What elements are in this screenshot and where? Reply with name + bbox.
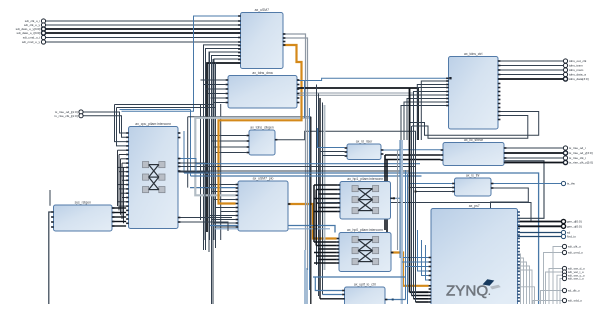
wire tick feed 4 [407,99,446,141]
svg-text:tx_rise_od_i: tx_rise_od_i [569,146,586,150]
svg-text:tx_rise_clk_y[3:0]: tx_rise_clk_y[3:0] [569,161,593,165]
wire uplf in blue 290 [315,277,342,291]
port right port tdns_data[3:0] [563,77,588,81]
wire V4 x411 [411,126,413,296]
wire tick feed 0 [421,81,446,140]
wire tick feed 88 thin [418,87,446,89]
ax_cpu_interconnect right pins [178,132,181,223]
ax_uplf_io_ctrl left pins [342,290,345,300]
wire hp1 in 2 [318,193,337,195]
ax_tx_rise_shear left pins [441,149,444,161]
wire blue vertical V1d [187,117,189,188]
wire dma in 2 [206,88,226,90]
wire riser in 2 [320,151,345,153]
block ax_tdns_clkgen [249,125,275,155]
wire orange net pio to hp0 [288,204,337,239]
wire blue vertical V1c [183,131,185,173]
wire ps7 right nest 3 [518,266,530,304]
ax_id_riser right pins [381,149,384,155]
svg-text:sdi_dato_o_i[3:0]: sdi_dato_o_i[3:0] [17,31,41,35]
svg-text:fixd_io: fixd_io [567,235,576,239]
wire dma in 5 [213,102,226,104]
wire V3 x305 blue low [304,250,306,304]
ax_hp1_interconnect right pins [390,198,393,200]
svg-text:tdns_out_clk: tdns_out_clk [569,59,587,63]
wire rstgen right 3 [112,221,126,223]
wire V4 x405 blue [405,170,407,300]
wire sdi_clk_o wire [553,247,562,305]
wire dark h116 [188,116,311,118]
wire dma to tick blue [297,78,446,80]
block ax_uSD_pio [238,176,288,231]
wire shear bus in 1 [385,154,441,156]
wire bundle ps7 gen buses [518,222,562,227]
port right port tdns_mam [563,68,583,72]
wire V3 x310 black low [310,117,312,304]
svg-text:sdi_clk_o: sdi_clk_o [568,245,581,249]
wire hp1 in 5 [318,207,337,209]
port right port tx_rise_od_i [563,146,585,150]
wire uplf blue h277 [313,276,406,278]
wire sdi_vdd_o wire [533,301,562,305]
wire tick loop 1 [410,112,539,136]
wire hp1 in 4 [316,202,337,204]
wire bus V2 to ax_uSM7 [207,63,241,232]
sys_rstgen left pins [51,211,54,228]
ax_tdns_ctrl left pins [446,78,449,107]
wire V3 x305 blue short [304,80,306,118]
wire tick feed 1 [417,85,446,141]
port right port tx_rise_clk_y[3:0] [563,160,593,164]
port left port tx_rise_od_j[1:0] [55,110,83,114]
port right port sdi_vdd_o [562,298,582,302]
wire hp1 right blue [391,198,429,257]
wire dma in 4 [211,97,226,99]
wire pair h1 cpu_ic [115,104,214,106]
wire sdi_var_l_o wire [560,279,562,305]
wire V4 feed ps7 262 [402,261,429,263]
ax_cpu_interconnect left pins [126,132,129,224]
ax_hp0_interconnect right pins [391,252,394,254]
port right port fixd_io [561,234,576,238]
wire orange net uSM7 to pio [219,45,302,204]
svg-text:tx_rise_clk_j[1:0]: tx_rise_clk_j[1:0] [55,114,78,118]
wire clkgen in 4 [216,152,247,154]
block ax_id_riser [347,139,381,159]
block ax_tdns_dma [228,71,297,108]
wire uplf in blue 294 [323,294,343,296]
svg-text:gen_d[0:0]: gen_d[0:0] [567,220,582,224]
port left port sdi_dato_o_y[3:0] [16,27,46,31]
svg-text:sdi_var_l_o: sdi_var_l_o [568,277,584,281]
wire black vertical x200 [200,105,202,221]
ax_hp1_interconnect left pins [338,184,341,212]
wire ps7 right nest 2 [518,262,527,304]
ax_uSM7 right pins [283,33,286,46]
ax_is_thr right pins [491,183,494,189]
wire cpu_ic out 172 [178,172,209,252]
wire V4 x421 blue [422,240,429,276]
wire V2 riser 2 to ax_uSM7 [209,52,241,250]
wire blue feed cpu interconnect [120,109,191,111]
wire rstgen right 0 [112,207,126,209]
svg-text:ZYNQ: ZYNQ [446,282,488,299]
wire V4 x402 wide [401,140,403,304]
wire clkgen out 1 [275,131,416,140]
ax_tx_rise_shear right pins [504,147,507,163]
port right port tx_rise_clk_i [563,156,586,160]
wire bundle left port buses to ax_uSM7 [46,29,241,33]
ax_tdns_dma right pins [297,79,300,103]
wire V3 x324 wide [324,105,326,270]
wire V4 feed ps7 292 [410,291,429,293]
wire pio in 1 [212,191,236,193]
wire blue long 173 [184,173,539,304]
wire pio in 2 [213,199,236,201]
wire shear v385a [384,155,386,230]
svg-text:is_thv: is_thv [567,182,576,186]
port right port is_thv [561,181,575,185]
wire cpu_ic out 158 [178,159,196,174]
ax_tdns_dma left pins [226,79,229,103]
ax_tdns_ctrl right pins [498,60,501,120]
wire tx_rise_od_j to interconnect [83,112,126,133]
wire V4 feed ps7 266 [406,266,429,268]
wire cpu_ic out 222 [178,222,228,231]
ax_hp1_interconnect crossbar icon [352,186,379,214]
wire hp1 in 0 [314,184,338,186]
svg-text:ax_tdns_ctrl: ax_tdns_ctrl [464,52,483,56]
wire dma gray out 95 [297,95,410,130]
ZYNQ logo [446,279,501,299]
wire pio in 6 [212,219,236,221]
wire dma in 3 [208,93,226,95]
port right port sdi_clk_o [562,244,581,248]
wire blue net to ax_uSM7 pin0 [122,16,241,111]
wire tick feed 5 [404,102,446,140]
svg-text:gen_u[0:0]: gen_u[0:0] [567,224,582,228]
block ax_is_thr [455,173,492,196]
svg-text:ax_tdns_dma: ax_tdns_dma [252,71,272,75]
wire thr in blue [410,183,453,185]
junction hp1 right [393,197,395,199]
wire V4 x400 blue [399,140,401,198]
wire sdi_cmd_o wire [544,253,563,305]
wire rstgen left top [49,190,51,206]
wire sdi_var_d_o wire [549,269,562,305]
svg-text:tdns_data[3:0]: tdns_data[3:0] [569,77,589,81]
ax_hp0_interconnect crossbar icon [352,237,379,265]
wire thr out to port [491,183,561,185]
ax_hp0_interconnect left pins [337,238,340,264]
port right port sd [561,230,570,234]
wire tick feed 3 [410,95,446,140]
wire clkgen in 2 [212,140,247,142]
wire V4 feed ps7 298 [414,298,429,300]
ax_uSD_pio right pins [288,203,291,205]
wire V4 x409 black [409,88,411,292]
block ax_uSM7 [241,8,284,69]
wire V2 riser 0 to ax_uSM7 [204,45,241,250]
block sys_rstgen [54,200,113,231]
wire thr in 3 [416,191,453,193]
wire bundle shear out thin [504,148,563,158]
block ax_cpu_interconnect [129,122,179,229]
svg-text:tx_rise_od_y[3:0]: tx_rise_od_y[3:0] [569,151,593,155]
wire blue long 176 [191,175,422,177]
wire clkgen in 3 [213,146,247,148]
svg-text:sdi_cmd_o_y: sdi_cmd_o_y [22,40,41,44]
svg-text:sdi_vdd_o: sdi_vdd_o [568,299,582,303]
wire bundle tick out thin [498,61,563,75]
wire dark mid h160 [460,161,544,219]
port left port sdi_clk_o_y [24,23,46,27]
wire V2 riser 3 to ax_uSM7 [212,56,241,241]
wire dma to tick bus [297,88,418,140]
wire V4 x407 blue [407,174,409,304]
wire uplf out blue [385,299,406,301]
wire pio in blue [190,187,236,189]
ax_uSM7 left pins [238,15,241,64]
ax_ps7 right pins [517,211,520,302]
wire thr in 2 [410,187,453,189]
wire bundle ps7 blue outs [518,233,562,237]
wire tick loop 2 [412,116,528,139]
wire V3 x316 [316,85,318,266]
svg-text:tdns_data_a: tdns_data_a [569,73,586,77]
port right port gen_u[0:0] [561,224,581,228]
block ax_tx_rise_shear [443,138,504,166]
ax_cpu_interconnect crossbar icon [143,162,166,193]
svg-text:ax_iic_shear: ax_iic_shear [464,138,484,142]
wire pio in 3 [216,207,236,209]
port right port tdns_data_a [563,72,586,76]
wire hp1 v316b [315,190,317,246]
svg-text:ax_id_riser: ax_id_riser [356,139,373,143]
ax_ps7 left pins [429,257,432,303]
ax_uSD_pio left pins [236,184,239,228]
ax_tdns_clkgen right pins [275,139,278,141]
wire dma in 1 [203,84,226,86]
svg-text:ax_hp1_pilam:interconn: ax_hp1_pilam:interconn [347,177,383,181]
wire hp0 in 1 [316,245,336,247]
wire hp0 in 6 [314,262,337,264]
svg-text:ax_uplf_io_ctrl: ax_uplf_io_ctrl [354,282,376,286]
wire blue vertical V1b [190,110,192,177]
wire hp1 in 3 [314,198,338,200]
wire hp1 v314 [313,185,315,242]
svg-text:ax_uSM7_pio: ax_uSM7_pio [253,176,274,180]
svg-text:ax_uSM7: ax_uSM7 [255,8,269,12]
svg-text:ax_hp0_pilam:interconn: ax_hp0_pilam:interconn [347,228,383,232]
wire bundle shear out bus [504,153,563,163]
wire long net 202 [319,203,532,222]
wire V2 x211 down [211,56,213,305]
wire dma gray out 93 [297,93,414,120]
ax_tdns_clkgen left pins [247,135,250,154]
block ax_uplf_io_ctrl [345,282,386,309]
svg-text:sys_rstgen: sys_rstgen [75,200,92,204]
wire riser in 1 blue [318,128,345,148]
wire bundle left ports to ax_uSM7 [46,21,241,42]
wire V4 x415 [415,140,417,302]
wire riser in 3 [323,155,345,157]
wire V2 riser 1 to ax_uSM7 [206,49,241,251]
block ax_hp1_interconnect [340,177,391,219]
wire V3 x320 [319,98,321,299]
wire V3 x322 [322,103,324,295]
wire pio in gray wide [195,118,310,196]
wire V2 x220 down [220,104,222,240]
block ax_ps7 [431,204,518,309]
wire V4 x397 gray [397,150,399,250]
port right port sdi_var_i_o [562,270,584,274]
wire hp1 in 6 [314,211,338,213]
wire sd_db_o wire [541,291,563,305]
wire uSM7 gray out 2 [283,38,308,270]
wire pio in 7 [213,222,236,224]
svg-text:tdns_mam: tdns_mam [569,68,584,72]
wire tick feed 6 [401,106,446,141]
wire V4 x417 blue [418,230,429,271]
wire V2 x209 down [209,52,211,240]
port left port sdi_clk_o_i [25,19,46,23]
port right port tdns_out_clk [563,59,586,63]
svg-text:ax_tdns_clkgen: ax_tdns_clkgen [250,125,274,129]
wire pair v1 down [115,105,127,142]
wire clkgen in 1 [210,135,247,137]
svg-text:ax_ps7: ax_ps7 [469,204,480,208]
wire pair v2 down [117,108,127,146]
wire cpu_ic out 163 [178,163,205,240]
wire rstgen left down [49,212,52,304]
wire dark long 171 [178,170,410,172]
wire hp1 in 1 [316,189,337,191]
ax_tdns_ctrl interface pin dot [449,77,451,79]
wire sdi_var_i_o wire [546,272,563,304]
port left port tx_rise_clk_j[1:0] [55,114,84,118]
wire pio in 4 [221,211,236,213]
wire bundle tick out bus [498,78,563,80]
port right port tx_rise_od_y[3:0] [563,151,592,155]
block ax_hp0_interconnect [339,228,391,272]
wire V4 x425 blue [426,245,429,280]
wire V2 x213 down [212,59,214,304]
junction thr feeds [409,187,417,193]
wire pio in 0 [210,184,236,186]
wire V3 x309 blue [309,108,311,290]
wire pio in 8 [216,226,236,228]
wire cpu interconnect left feeder bundle [118,150,127,223]
port right port sdi_var_d_o [562,266,585,270]
wire orange net hp0 to ps7 [391,253,429,286]
wire sdi_var_c_o wire [557,275,562,304]
wire V3 x307 blue low [306,268,308,304]
svg-text:ax_is_thr: ax_is_thr [466,173,481,177]
wire hp0 in 4 [316,255,336,257]
ax_uplf_io_ctrl right pins [385,299,388,301]
wire V4 feed ps7 302 [416,301,429,303]
wire rstgen right 4 [112,225,126,227]
port right port gen_d[0:0] [561,219,581,223]
wire V4 x413 [413,123,415,299]
port right port sdi_var_c_o [562,273,584,277]
wire tx_rise_clk_j to interconnect [83,116,126,138]
port right port tdns_tram [563,63,583,67]
wire thr loop [491,188,529,209]
wire V4 feed ps7 295 [412,295,429,297]
wire uSM7 gray out 1 [283,34,306,250]
port left port sdi_dato_o_i[3:0] [17,31,46,35]
wire ps7 right nest 5 [518,287,535,304]
wire blue band 163 [196,163,420,165]
svg-text:tx_rise_clk_i: tx_rise_clk_i [569,156,586,160]
block ax_tdns_ctrl [449,52,499,129]
wire ps7 right nest 1 [518,258,524,304]
wire shear bus in 2 [385,159,441,161]
svg-text:tdns_tram: tdns_tram [569,64,583,68]
wire pio in 5 [210,215,236,217]
ax_id_riser left pins [345,147,348,157]
wire dark long 166 [178,166,416,168]
wire V2 riser 4 to ax_uSM7 [214,59,241,240]
wire tick feed 2 [414,92,447,141]
wire dma in 0 [201,79,226,81]
sys_rstgen right pins [112,207,115,227]
svg-text:sdi_cmd_o_i: sdi_cmd_o_i [23,36,41,40]
wire ps7 right nest 0 [518,254,521,304]
wire riser to shear blue [381,149,441,151]
port right port sdi_cmd_o [562,250,583,254]
wire hp0 in 3 [314,252,337,254]
port right port sd_db_o [562,288,580,292]
wire shear v387 [386,160,388,236]
junction uplf out [392,299,394,301]
wire gray h228 [215,228,330,230]
ax_is_thr left pins [452,183,455,193]
wire V2 x215 down [215,62,217,248]
wire blue h225 [210,226,335,233]
svg-text:sd_db_o: sd_db_o [568,289,580,293]
wire V3 x318 [318,94,320,297]
wire pair h2 cpu_ic [117,107,216,109]
wire cpu_ic out 217 [178,217,232,219]
svg-text:sdi_cmd_o: sdi_cmd_o [568,251,583,255]
svg-text:ax_cpu_pilam:interconn: ax_cpu_pilam:interconn [135,122,171,126]
port left port sdi_cmd_o_i [23,35,46,39]
wire uplf in dark 298 [320,298,342,300]
wire rstgen right 1 [112,212,126,214]
wire hp0 in 2 [318,248,336,250]
wire hp0 in 0 [314,241,337,243]
wire rstgen right 2 [112,216,126,218]
port right port sdi_var_l_o [562,276,584,280]
wire hp0 in 5 [318,259,336,261]
port left port sdi_cmd_o_y [22,40,46,44]
wire ps7 right nest 4 [518,270,533,304]
